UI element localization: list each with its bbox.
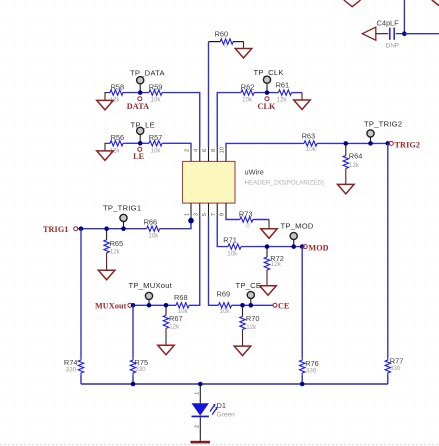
svg-text:R70: R70 [246,314,260,323]
port MOD [303,243,328,252]
wire LE row left [126,142,149,144]
test point TP_DATA [130,69,165,93]
ground (R65) [98,253,115,280]
port CLK [257,97,276,111]
junction (R65) [104,226,109,231]
svg-text:TRIG2: TRIG2 [395,141,421,150]
svg-text:R69: R69 [217,289,231,298]
resistor R63 [302,132,317,153]
svg-text:12k: 12k [110,249,121,256]
resistor R61 [276,81,292,104]
wire R74 to bottom rail [80,376,82,385]
svg-text:12k: 12k [349,162,360,169]
svg-text:TRIG1: TRIG1 [43,225,69,234]
pin1 polarity marker [188,218,194,224]
resistor R76 [300,358,319,376]
svg-text:10k: 10k [148,232,159,239]
svg-text:10: 10 [220,147,226,153]
junction (CLK) [265,90,270,95]
test point TP_MOD [281,222,314,247]
wire DATA row right to pin 4 [162,93,200,147]
wire LE row right to pin 2 [162,143,191,147]
test point TP_CE [236,281,262,305]
svg-text:Green: Green [217,412,236,419]
svg-text:CLK: CLK [257,102,276,111]
svg-text:TP_TRIG1: TP_TRIG1 [103,204,141,213]
svg-text:R67: R67 [169,314,183,323]
wire R76 column [301,247,303,358]
resistor R68 [174,293,189,315]
wire left column TRIG1 to R74 [80,229,82,358]
svg-text:12k: 12k [277,97,288,104]
svg-text:D1: D1 [217,401,226,410]
svg-text:R61: R61 [276,81,290,90]
svg-text:330: 330 [135,366,146,373]
svg-text:R63: R63 [302,132,316,141]
resistor R62 [241,82,255,103]
resistor R75 [130,358,148,376]
junction (D1 top) [198,382,203,387]
svg-text:R64: R64 [349,152,363,161]
svg-text:5: 5 [202,213,208,216]
svg-text:3: 3 [193,213,199,216]
wire R76 to bottom rail [301,376,303,385]
header uWire [183,161,324,203]
wire pin1 down to TRIG1 row [160,217,191,229]
svg-text:10k: 10k [227,251,238,258]
pin stubs top [191,147,226,161]
svg-text:HEADER_2X5(POLARIZED): HEADER_2X5(POLARIZED) [245,180,324,187]
wire R75 to bottom rail [132,376,134,385]
resistor R60 [209,30,244,50]
wire top right vertical [403,0,405,34]
svg-text:R60: R60 [215,30,229,39]
test point TP_TRIG2 [364,119,402,143]
svg-text:12k: 12k [169,324,180,331]
port arrow (to C4) [362,27,376,40]
test point TP_CLK [254,68,284,92]
junction (LE) [138,141,143,146]
svg-text:TP_TRIG2: TP_TRIG2 [364,119,402,128]
wire bottom rail [81,383,388,385]
wire TRIG2 row right [317,142,389,144]
port CE [273,302,290,311]
resistor R56 [107,133,126,154]
junction (MOD column) [300,244,305,249]
junction (R75 bottom) [131,382,136,387]
svg-text:10k: 10k [178,308,189,315]
svg-text:uWire: uWire [245,168,264,177]
svg-text:0: 0 [224,43,228,50]
svg-text:R66: R66 [144,217,158,226]
svg-text:C4pLF: C4pLF [377,18,400,27]
svg-text:R65: R65 [110,239,124,248]
junction (DATA) [138,90,143,95]
capacitor C4pLF [376,18,405,49]
ground (R64) [338,169,355,194]
wire R73 right [253,219,269,221]
wire R75 column [132,305,134,357]
wire MOD row [241,246,302,248]
ground (R60) [235,42,252,58]
resistor R77 [385,357,403,376]
ground (CLK row) [294,93,311,110]
power symbol (partial, top right corner) [432,0,439,6]
wire TRIG2 column to R77 [387,143,389,357]
wire pin5 down to CE row [209,217,219,306]
junction (TP_TRIG1) [121,226,126,231]
svg-text:MUXout: MUXout [95,302,127,311]
wire pin10 to TRIG2 row [226,143,304,147]
pin stubs bottom [191,203,226,216]
svg-text:7: 7 [211,213,217,216]
svg-text:TP_MUXout: TP_MUXout [129,281,173,290]
svg-text:TP_CE: TP_CE [236,281,262,290]
resistor R73 [239,210,253,230]
svg-text:1: 1 [185,213,191,216]
svg-text:10k: 10k [306,146,317,153]
svg-text:TP_DATA: TP_DATA [130,69,165,78]
svg-text:R68: R68 [174,293,188,302]
junction (TP_MOD) [291,244,296,249]
resistor R71 [223,236,241,258]
wire R77 to bottom rail [387,376,389,385]
port TRIG1 [43,225,78,234]
svg-text:R62: R62 [241,82,255,91]
svg-text:330: 330 [306,367,317,374]
sheet border (bottom edge) [0,444,439,446]
power symbol (partial, top) [344,0,361,7]
wire R68 to pin 3 [189,217,200,306]
resistor R65 [104,229,123,256]
LED D1 [192,384,236,441]
wire MUXout row [132,304,176,306]
resistor R67 [163,305,182,330]
svg-text:2: 2 [185,149,191,152]
ground (R72) [260,270,277,295]
wire CLK right [292,92,303,94]
resistor R58 [107,82,126,103]
svg-text:10k: 10k [242,97,253,104]
svg-text:330: 330 [390,365,401,372]
svg-text:MOD: MOD [308,243,328,252]
junction (R72) [265,244,270,249]
ground (R67) [158,328,175,354]
junction (TP_CE) [249,303,254,308]
resistor R57 [149,133,163,154]
ground (LE row) [97,143,114,160]
wire CLK row from pin 8 [217,93,241,147]
power bar (below D1) [191,441,211,444]
svg-text:R58: R58 [111,82,125,91]
wire CE row [232,304,274,306]
port DATA [127,97,149,111]
wire DATA row left [126,92,149,94]
resistor R66 [144,217,160,239]
svg-text:2: 2 [195,425,201,428]
test point TP_MUXout [129,281,173,305]
wire pin9 to R73 [226,217,240,220]
resistor R69 [217,289,232,315]
port MUXout [95,302,132,311]
wire R60 to pin 6 [208,42,210,147]
wire top right horizontal [404,33,439,35]
svg-text:R59: R59 [149,82,163,91]
svg-text:9: 9 [220,213,226,216]
svg-text:330: 330 [66,367,77,374]
svg-text:R56: R56 [111,133,125,142]
wire TRIG1 row left [78,228,147,230]
port LE [133,147,145,161]
junction (TP_MUXout) [147,303,152,308]
junction (R64 on TRIG2 row) [344,141,349,146]
test point TP_TRIG1 [103,204,141,229]
svg-text:R57: R57 [149,133,163,142]
svg-text:CE: CE [278,302,290,311]
junction (R70) [240,303,245,308]
ground (R70) [234,329,251,355]
svg-text:DATA: DATA [127,102,149,111]
svg-text:6: 6 [202,149,208,152]
svg-text:10k: 10k [151,147,162,154]
port TRIG2 [389,141,420,150]
svg-text:TP_MOD: TP_MOD [281,222,314,231]
junction (R76 bottom) [300,382,305,387]
svg-text:12k: 12k [271,261,282,268]
ground (R73) [261,220,278,239]
svg-text:1: 1 [195,392,201,395]
junction (R67) [164,303,169,308]
svg-text:8: 8 [211,149,217,152]
resistor R70 [240,305,260,331]
wire pin7 down to MOD row [217,217,228,247]
resistor R59 [149,82,163,103]
svg-text:12k: 12k [246,324,257,331]
wire CLK middle [254,92,279,94]
test point TP_LE [131,120,155,143]
svg-text:0: 0 [246,222,250,229]
junction (TP_TRIG2) [368,141,373,146]
resistor R74 [64,358,84,376]
junction (TRIG2 column) [386,141,391,146]
junction (C4 node) [402,31,407,36]
resistor R64 [343,143,362,168]
svg-text:LE: LE [133,152,145,161]
resistor R72 [264,247,284,270]
ground (DATA row) [97,93,114,110]
svg-text:10k: 10k [220,308,231,315]
junction (TRIG1 column) [79,226,84,231]
svg-text:R71: R71 [223,236,237,245]
svg-text:DNP: DNP [386,42,399,49]
svg-text:10k: 10k [151,97,162,104]
junction (R75 column) [131,303,136,308]
